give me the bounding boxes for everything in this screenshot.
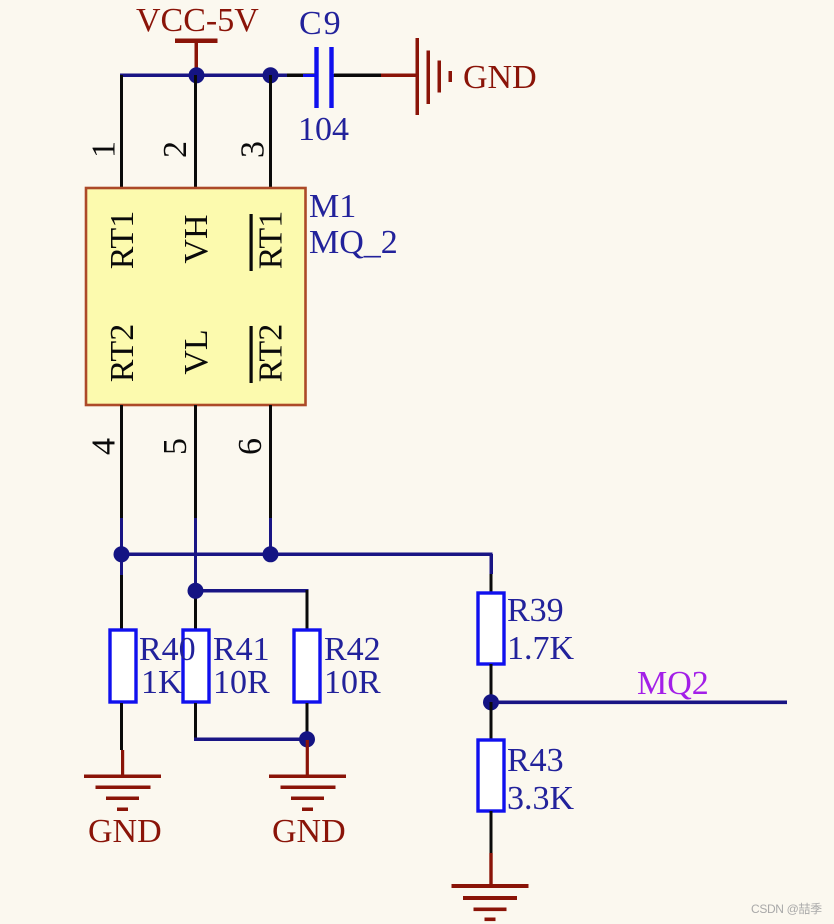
wire pin 4 navy segment bbox=[120, 518, 123, 575]
wire to R39 top (black) bbox=[490, 574, 493, 593]
wire R42 ground lead red bbox=[306, 740, 309, 776]
wire R43 ground lead red bbox=[489, 853, 492, 885]
resistor R41 body bbox=[183, 630, 209, 702]
svg-text:GND: GND bbox=[272, 813, 346, 850]
svg-text:1.7K: 1.7K bbox=[507, 630, 575, 667]
wire MQ2 net horizontal (navy) bbox=[491, 701, 787, 705]
node junction pin6 bus bbox=[263, 546, 279, 562]
wire R40 ground lead red bbox=[121, 750, 124, 776]
wire to capacitor (black) bbox=[287, 74, 315, 78]
svg-text:10R: 10R bbox=[213, 664, 270, 701]
svg-text:1: 1 bbox=[86, 141, 123, 158]
wire pin 3 vertical bbox=[269, 75, 272, 188]
wire capacitor stubs (blue) bbox=[303, 74, 315, 77]
wire pin 1 vertical bbox=[120, 75, 123, 188]
svg-text:R42: R42 bbox=[324, 631, 381, 668]
svg-text:M1: M1 bbox=[309, 188, 356, 225]
wire pin 2 vertical bbox=[194, 75, 197, 188]
node junction pin5 bbox=[188, 583, 204, 599]
svg-text:GND: GND bbox=[463, 59, 537, 96]
node junction pin2/VCC bbox=[189, 67, 205, 83]
wire pin 5 black lower to R41 bbox=[194, 594, 197, 630]
svg-text:RT2: RT2 bbox=[253, 324, 290, 382]
wire R39 bottom black bbox=[490, 664, 493, 702]
component M1 chip body bbox=[86, 188, 306, 405]
wire pin 4 black lower to R40 bbox=[120, 575, 123, 630]
svg-text:R39: R39 bbox=[507, 592, 564, 629]
svg-text:CSDN @喆季: CSDN @喆季 bbox=[751, 902, 822, 916]
wire R42 bottom black bbox=[306, 703, 309, 740]
wire bus corner down to R39 (navy) bbox=[490, 554, 494, 574]
wire pin 6 navy segment bbox=[269, 518, 272, 556]
pin name RT1-bar overline bbox=[250, 214, 253, 271]
wire R41 to R42 horizontal (navy) bbox=[194, 738, 309, 742]
svg-text:MQ2: MQ2 bbox=[637, 665, 709, 702]
svg-text:C9: C9 bbox=[299, 5, 343, 42]
ground symbol below R40 bbox=[84, 775, 161, 812]
ground symbol top right bbox=[416, 38, 453, 115]
svg-text:5: 5 bbox=[157, 438, 194, 455]
svg-text:RT1: RT1 bbox=[104, 211, 141, 269]
svg-text:RT2: RT2 bbox=[104, 324, 141, 382]
svg-text:VCC-5V: VCC-5V bbox=[136, 2, 259, 39]
wire pin 5 vertical black upper bbox=[194, 405, 197, 518]
svg-text:R43: R43 bbox=[507, 742, 564, 779]
svg-text:R40: R40 bbox=[139, 631, 196, 668]
wire R40 bottom black bbox=[120, 703, 123, 750]
wire R43 top black bbox=[490, 702, 493, 739]
svg-text:4: 4 bbox=[86, 438, 123, 455]
node junction pin4 bus bbox=[114, 546, 130, 562]
svg-text:6: 6 bbox=[232, 438, 269, 455]
pin name RT2-bar overline bbox=[250, 326, 253, 383]
svg-text:RT1: RT1 bbox=[253, 211, 290, 269]
resistor R40 body bbox=[110, 630, 136, 702]
resistor R39 body bbox=[478, 593, 504, 664]
wire pin 4 vertical black upper bbox=[120, 405, 123, 518]
node junction pin3 top bbox=[263, 67, 279, 83]
resistor R42 body bbox=[294, 630, 320, 702]
ground symbol bottom bbox=[452, 884, 529, 921]
svg-text:GND: GND bbox=[88, 813, 162, 850]
svg-text:3.3K: 3.3K bbox=[507, 780, 575, 817]
wire pin 5 navy segment bbox=[194, 518, 197, 594]
wire VCC horizontal (navy) bbox=[120, 74, 287, 78]
resistor R43 body bbox=[478, 740, 504, 811]
capacitor C9 plates bbox=[314, 47, 333, 108]
node junction R42 bottom bbox=[299, 731, 315, 747]
wire ground lead (dark red) bbox=[381, 74, 417, 78]
svg-text:R41: R41 bbox=[213, 631, 270, 668]
svg-text:10R: 10R bbox=[324, 664, 381, 701]
wire capacitor to ground (black) bbox=[334, 74, 381, 78]
svg-text:104: 104 bbox=[298, 111, 349, 148]
svg-text:3: 3 bbox=[235, 141, 272, 158]
svg-text:2: 2 bbox=[157, 141, 194, 158]
svg-text:VH: VH bbox=[178, 214, 215, 263]
wire pin5 to R42 horizontal (navy) bbox=[194, 589, 309, 593]
svg-text:MQ_2: MQ_2 bbox=[309, 224, 398, 261]
svg-text:VL: VL bbox=[178, 329, 215, 374]
wire down to R42 (black) bbox=[306, 590, 309, 630]
node junction MQ2 bbox=[483, 694, 499, 710]
svg-text:1K: 1K bbox=[141, 664, 183, 701]
wire R43 bottom black bbox=[490, 811, 493, 853]
ground symbol below R42 bbox=[269, 775, 346, 812]
wire main horizontal bus (navy) bbox=[120, 553, 493, 557]
wire R41 bottom black bbox=[194, 703, 197, 740]
power bar symbol VCC-5V bbox=[175, 39, 218, 77]
wire pin 6 vertical black upper bbox=[269, 405, 272, 518]
